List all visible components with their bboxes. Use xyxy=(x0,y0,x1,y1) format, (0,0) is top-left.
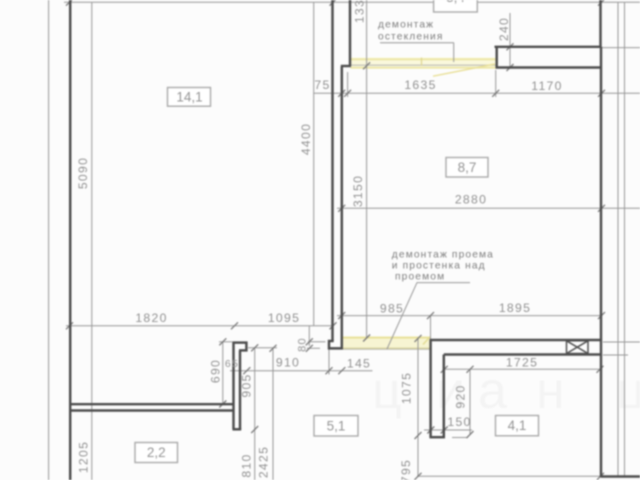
svg-text:проемом: проемом xyxy=(395,272,445,283)
svg-text:810: 810 xyxy=(240,453,254,477)
svg-text:690: 690 xyxy=(209,359,223,383)
svg-text:остекления: остекления xyxy=(378,32,444,43)
svg-text:5,1: 5,1 xyxy=(327,418,346,433)
svg-text:2880: 2880 xyxy=(455,193,487,207)
svg-text:1725: 1725 xyxy=(506,356,538,370)
svg-text:14,1: 14,1 xyxy=(176,90,202,105)
svg-text:2425: 2425 xyxy=(257,446,271,478)
svg-text:1170: 1170 xyxy=(531,79,562,93)
svg-text:демонтаж: демонтаж xyxy=(378,20,434,31)
svg-text:910: 910 xyxy=(276,355,300,369)
svg-text:905: 905 xyxy=(240,373,254,397)
svg-text:985: 985 xyxy=(380,302,404,316)
svg-text:75: 75 xyxy=(314,78,330,92)
svg-text:2,2: 2,2 xyxy=(147,445,166,460)
svg-text:ц: ц xyxy=(616,362,640,420)
svg-text:1330: 1330 xyxy=(353,0,367,23)
svg-text:1075: 1075 xyxy=(400,372,414,404)
svg-text:8,7: 8,7 xyxy=(458,160,477,175)
svg-text:4400: 4400 xyxy=(299,123,313,155)
svg-text:150: 150 xyxy=(447,415,471,429)
svg-text:н: н xyxy=(536,362,565,420)
svg-text:4,1: 4,1 xyxy=(508,418,527,433)
svg-text:демонтаж проема: демонтаж проема xyxy=(392,250,494,261)
svg-text:5090: 5090 xyxy=(76,157,90,189)
svg-text:80: 80 xyxy=(297,337,309,352)
svg-text:3150: 3150 xyxy=(351,175,365,207)
svg-text:1635: 1635 xyxy=(404,78,436,92)
svg-text:795: 795 xyxy=(399,459,413,480)
svg-text:1820: 1820 xyxy=(135,311,167,325)
svg-text:1095: 1095 xyxy=(268,311,300,325)
svg-text:920: 920 xyxy=(454,384,468,408)
svg-text:145: 145 xyxy=(347,356,371,370)
svg-text:ц: ц xyxy=(372,362,402,420)
svg-text:240: 240 xyxy=(497,17,511,41)
svg-text:и простенка над: и простенка над xyxy=(392,261,486,272)
svg-text:1205: 1205 xyxy=(77,441,91,473)
svg-text:3,4: 3,4 xyxy=(446,0,465,5)
svg-text:1895: 1895 xyxy=(499,301,531,315)
svg-text:65: 65 xyxy=(225,358,239,370)
svg-text:а: а xyxy=(478,362,507,420)
